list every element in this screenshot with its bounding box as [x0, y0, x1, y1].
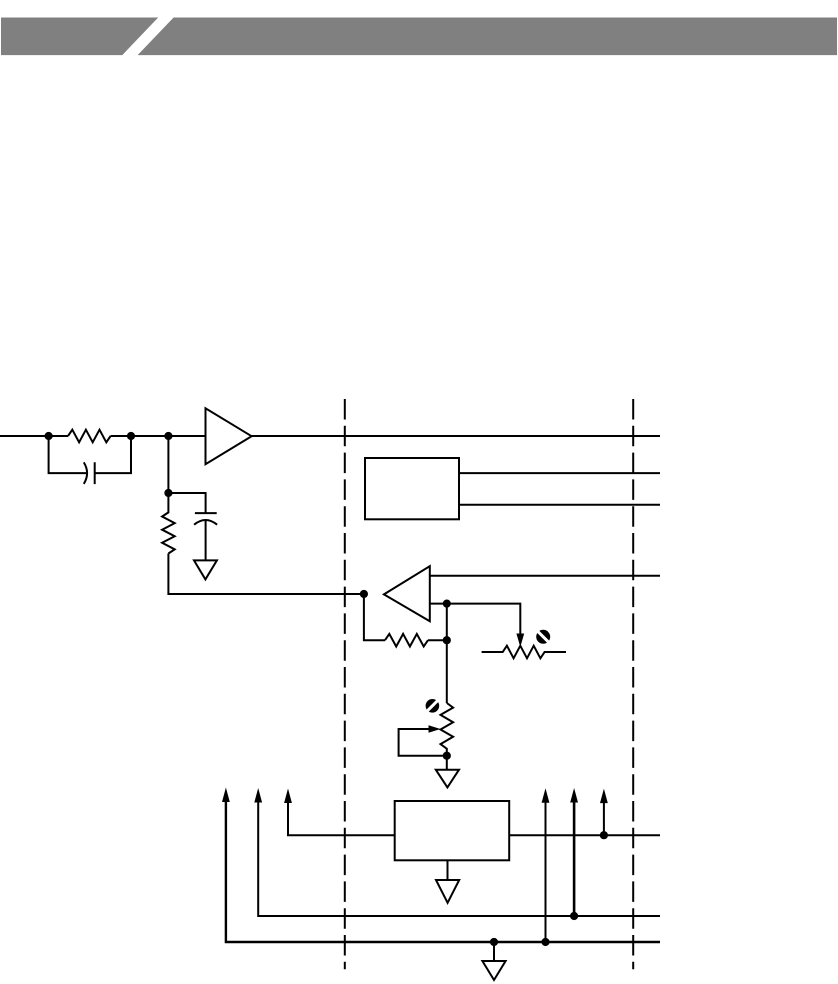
node shunt junction	[164, 489, 172, 497]
node U2 output junction	[360, 590, 368, 598]
node feedback bottom	[443, 636, 451, 644]
wire R3 to node	[428, 639, 447, 641]
wire feedback left leg	[364, 594, 385, 640]
wire input left	[0, 435, 68, 437]
arrow net B1	[542, 788, 550, 803]
wire U1 output	[252, 435, 660, 437]
arrow R5 wiper	[429, 725, 441, 733]
wire R2 to U2 input	[168, 554, 364, 595]
trimmer R5	[441, 703, 454, 756]
block box U4	[395, 801, 510, 860]
node bottom ground junction	[490, 938, 498, 946]
wire bottom ground stub	[493, 942, 495, 961]
wire net A2	[258, 801, 660, 917]
wire U4 output right	[509, 834, 660, 836]
op-amp U2	[384, 566, 430, 621]
wire U2 input from right	[430, 575, 660, 577]
wire net A1	[226, 800, 660, 942]
wire net B3	[603, 801, 605, 835]
node main junction	[164, 432, 172, 440]
arrow net B3	[600, 789, 608, 804]
node B3 junction	[600, 831, 608, 839]
trimmer R5 adjust symbol	[426, 699, 440, 713]
arrow net A2	[254, 788, 262, 803]
wire down from main	[167, 436, 169, 493]
wire node to trimmer R5	[446, 640, 448, 703]
wire R1 to node	[111, 435, 169, 437]
header bar right segment	[138, 18, 837, 56]
wire node to amp U1	[168, 435, 205, 437]
wire net B1	[545, 801, 547, 942]
arrow net A3	[284, 789, 292, 804]
resistor R3 feedback	[385, 634, 428, 647]
wire U3 output 2	[459, 504, 660, 506]
wire R5 to ground	[446, 756, 448, 770]
wire U3 output 1	[459, 472, 660, 474]
ground below U4	[436, 880, 459, 903]
capacitor C2	[194, 513, 217, 525]
dashed boundary right	[632, 399, 634, 969]
wire feedback vertical	[446, 604, 448, 641]
capacitor C1	[84, 462, 95, 484]
trimmer R4	[482, 646, 566, 659]
trimmer R4 adjust symbol	[536, 630, 550, 644]
node B2 junction	[570, 912, 578, 920]
arrow net B2	[570, 788, 578, 803]
block box U3	[365, 458, 459, 519]
node R1 right junction	[127, 432, 135, 440]
ground below R5	[436, 770, 459, 788]
wire net A3 to U4	[288, 801, 395, 835]
node R5 bottom	[443, 752, 451, 760]
node feedback top	[443, 600, 451, 608]
node input junction	[45, 432, 53, 440]
wire C1 left leg	[49, 436, 86, 473]
wire R5 wiper loop	[399, 729, 447, 756]
arrow onto R4	[516, 634, 524, 648]
wire U4 ground stub	[447, 860, 449, 880]
wire net B2	[573, 801, 576, 917]
ground below C2	[194, 560, 217, 579]
arrow net A1	[222, 788, 230, 803]
resistor R1	[68, 430, 111, 443]
wire U2 feedback stub	[430, 603, 447, 605]
resistor R2	[162, 493, 175, 554]
ground bottom	[482, 961, 505, 980]
wire to trimmer R4	[447, 604, 521, 634]
node B1 junction	[541, 938, 549, 946]
wire C2 to ground	[205, 520, 207, 560]
wire to C2	[168, 493, 205, 513]
op-amp U1 buffer	[206, 408, 252, 464]
header bar left segment	[1, 18, 158, 56]
wire C1 right leg	[95, 436, 131, 473]
dashed boundary left	[344, 399, 346, 969]
